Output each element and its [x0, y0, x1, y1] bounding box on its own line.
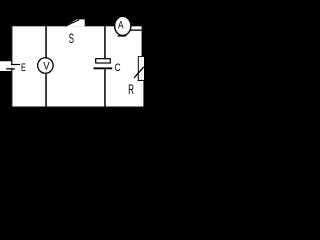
- white circuit panel (main interior): [11, 26, 142, 106]
- capacitor C: bottom plate: [94, 67, 113, 69]
- svg-text:S: S: [69, 30, 74, 46]
- rheostat R: box bottom edge: [138, 80, 144, 81]
- switch S: lever diagonal: [65, 20, 79, 27]
- capacitor branch: wire above: [104, 26, 106, 58]
- wire: ammeter to right wire: [131, 30, 144, 31]
- rheostat R: box left edge: [138, 56, 139, 81]
- rheostat R: box top edge: [138, 55, 144, 58]
- capacitor C: top plate (hollow box): [96, 59, 111, 63]
- ammeter U1: circle on top wire: [115, 16, 131, 35]
- battery E: long plate: [11, 64, 20, 65]
- white right column: below rheostat: [142, 81, 144, 107]
- voltmeter branch: wire below circle: [45, 74, 47, 107]
- svg-text:V: V: [43, 61, 50, 73]
- battery E: short plate: [6, 68, 15, 69]
- svg-text:E: E: [21, 62, 26, 74]
- capacitor branch: wire below: [104, 69, 106, 106]
- white battery notch: [0, 61, 11, 71]
- svg-text:C: C: [115, 62, 121, 74]
- ammeter flat bottom chord: [118, 35, 127, 36]
- rheostat R: diagonal wiper arrow: [134, 67, 144, 78]
- white switch patch: [65, 19, 85, 26]
- wire: left vertical (lower part): [11, 70, 12, 107]
- svg-text:A: A: [118, 20, 124, 32]
- wire: left vertical (upper part): [11, 26, 12, 64]
- voltmeter U2: V circle: [38, 58, 54, 74]
- white right column: rheostat box interior: [142, 56, 144, 81]
- svg-text:R: R: [128, 81, 134, 97]
- voltmeter branch: wire above circle: [45, 26, 47, 57]
